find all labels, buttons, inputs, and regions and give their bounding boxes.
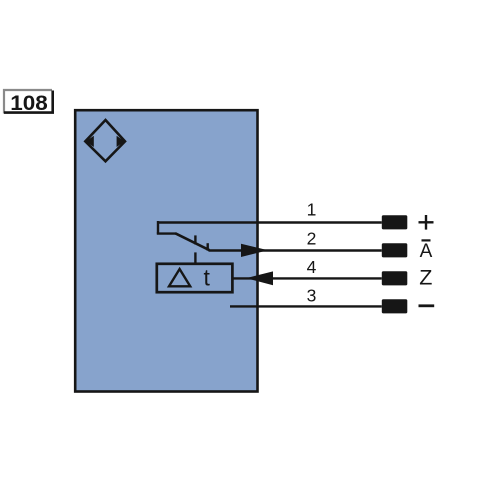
contact end tick mark <box>206 243 208 250</box>
terminal 3 <box>382 299 408 313</box>
wire 2 (pin 2 line) <box>209 249 382 251</box>
switch contact: left vertical drop <box>157 221 159 234</box>
actuator link to time-delay element <box>194 252 196 263</box>
polarity symbol minus <box>419 304 435 307</box>
wire 1 (pin 1 line) <box>157 221 382 223</box>
wire 4 (pin 4 line) <box>233 277 382 279</box>
wire 3 (pin 3 line) <box>230 305 382 307</box>
output symbol A-bar <box>420 240 433 262</box>
terminal 2 <box>382 243 408 257</box>
svg-text:2: 2 <box>307 229 317 249</box>
signal arrow on wire 4 (pointing left) <box>246 271 273 285</box>
signal arrow on wire 2 (pointing right) <box>241 244 268 257</box>
svg-text:A: A <box>420 241 433 262</box>
svg-text:108: 108 <box>10 91 48 115</box>
polarity symbol + <box>419 215 434 230</box>
sensor body (blue rectangle) <box>75 110 257 391</box>
svg-text:3: 3 <box>307 286 317 306</box>
terminal 4 <box>382 271 408 285</box>
switch lever (diagonal) <box>175 233 209 250</box>
svg-text:4: 4 <box>307 257 317 277</box>
contact tick mark <box>194 235 196 244</box>
right inner triangle <box>117 136 125 147</box>
delta triangle inside box <box>169 269 190 286</box>
time delay element box (delta t) <box>157 264 233 292</box>
figure number box 108 <box>4 90 53 115</box>
switch contact: horizontal stub <box>157 232 176 234</box>
svg-text:Z: Z <box>419 266 432 290</box>
left inner triangle <box>86 136 94 147</box>
proximity sensor diamond symbol <box>85 120 125 161</box>
terminal 1 <box>382 215 408 229</box>
svg-text:1: 1 <box>307 199 317 219</box>
svg-text:t: t <box>204 265 211 291</box>
